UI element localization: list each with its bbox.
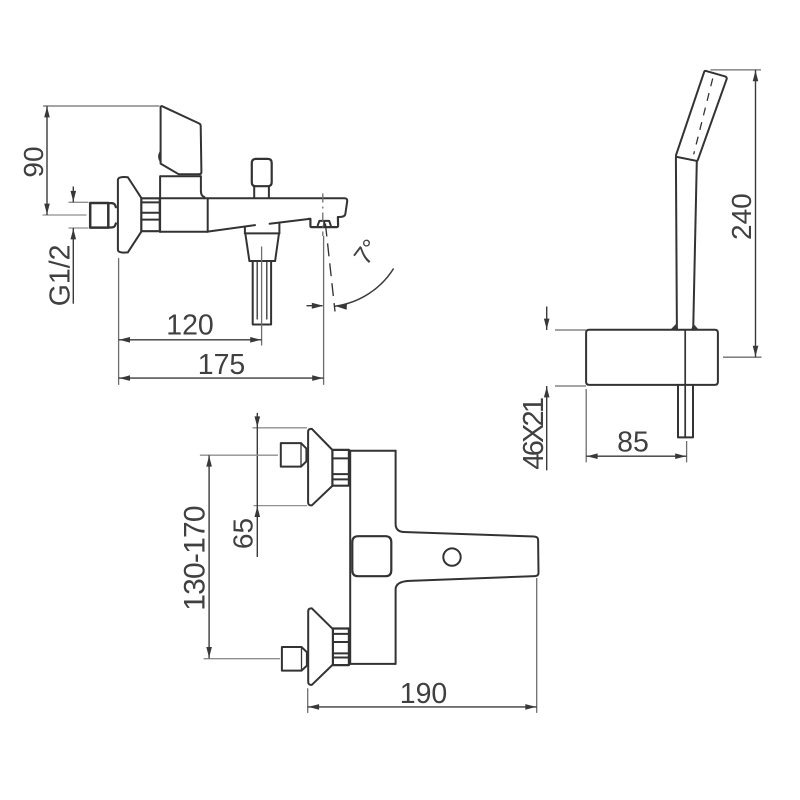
body top and spout right edge [160,198,347,217]
diverter knob stem [254,186,269,198]
dimension line 46X21 upper [544,307,550,331]
extension line holder bottom (46X21) [555,385,586,387]
aerator housing [309,217,339,227]
dimension line G1/2 lower [71,228,77,304]
diverter knob (top view) [443,548,460,565]
wall flange cone (side view) [118,177,141,253]
threaded inlet nipple G1/2 (side view) [90,203,108,228]
shower head (side view) [676,71,727,161]
dimension label 120 [166,309,214,341]
outlet pipe outer walls [253,261,271,325]
lower nut rib 1 [333,633,349,635]
svg-text:85: 85 [617,426,649,458]
dimension label 175 [198,349,246,381]
collar rib line 2 [141,212,160,214]
lower nut rib 4 [333,657,349,659]
dimension label 90 [18,146,49,177]
outlet neck left edge [244,227,246,233]
dimension line 90 [44,106,50,215]
holder clamp left jaw [671,324,678,330]
extension line, inlet axis (dim 90 / fig1) [43,214,87,216]
cartridge neck left edge / collar right edge [159,176,161,232]
svg-text:65: 65 [227,518,258,549]
angle dimension arc [335,269,394,310]
upper nut rib 1 [332,457,349,459]
dimension line G1/2 upper [71,187,77,203]
holder pin [678,385,693,438]
svg-text:130-170: 130-170 [179,506,212,611]
faucet body right side and spout (top view) [396,451,539,664]
upper union nut [332,450,349,486]
dimension line 46X21 lower [544,386,550,470]
lower nut rib 3 [333,652,349,654]
outlet cone shoulder [249,260,275,262]
dimension label 130-170 [179,506,212,611]
shower handle left edge [676,158,677,330]
svg-text:190: 190 [400,678,448,710]
collar rib line 1 [141,201,160,203]
dimension label G1/2 [45,245,77,307]
faucet body bottom edge [350,663,395,665]
dimension line 85 [586,453,686,459]
extension line holder mid (dim 240) [723,356,762,358]
shower handle right edge [693,161,697,329]
lower wall nipple (top view) [282,647,307,671]
lower nut rib 2 [333,641,349,643]
upper nut rib 2 [332,473,349,475]
upper flange cone (top view) [308,429,332,506]
extension line G1/2 bottom [69,227,89,229]
svg-text:G1/2: G1/2 [45,245,77,307]
extension line G1/2 top [69,201,89,203]
dimension label 46X21 [518,398,550,470]
dimension label 240 [726,193,757,240]
nipple-to-flange neck top [108,203,116,207]
wall holder bracket [586,330,718,385]
shower head face edge [694,79,713,155]
spout axis dash-dot line [322,194,324,237]
body underside left segment [208,225,255,232]
dimension line 175 [119,375,324,381]
dimension label 65 [227,518,258,549]
dimension label 85 [617,426,649,458]
nipple-to-flange neck bottom [108,223,116,227]
outlet neck right edge [278,224,280,234]
spout tip extension line (dim 175) [323,236,325,385]
upper nut rib 3 [332,478,349,480]
extension line upper nipple axis (dim 130-170) [200,454,278,456]
extension line holder left (dim 85) [585,389,587,462]
water stream dashed line 7deg [325,224,335,312]
faucet body top edge [350,450,395,452]
lower union nut [333,629,349,666]
dimension line 240 [753,70,759,357]
handle line through holder [684,330,686,438]
aerator insert [318,221,331,226]
cartridge cover square (top view) [352,536,391,576]
outlet cone right side [275,233,279,261]
diverter knob [252,159,272,186]
union nut collar (side view) [141,198,160,231]
neck top edge [160,175,201,177]
svg-text:90: 90 [18,146,49,177]
svg-text:120: 120 [166,309,214,341]
svg-text:175: 175 [198,349,246,381]
svg-text:46X21: 46X21 [518,398,550,470]
extension line cone bottom (dim 65) [254,505,308,507]
angle label 7deg [349,234,386,270]
outlet cone top edge [245,232,280,234]
body section edge [207,198,209,232]
cartridge neck right edge [201,176,204,198]
wall extension line (dims 120/175) [118,258,120,385]
dimension line 120 [119,337,262,343]
extension line wall (dim 190) [307,688,309,713]
dimension line 65 [255,413,261,557]
body underside right segment [270,219,309,224]
lever handle (side view) [161,106,202,174]
dimension label 190 [400,678,448,710]
outlet pipe center line (ext for dim 120) [261,247,263,346]
angle dim arrow at vertical axis [307,303,324,309]
dimension line 130-170 [206,455,212,658]
lower flange cone (top view) [308,608,332,685]
faucet body left edge (top view) [349,451,351,664]
holder clamp right jaw [691,324,698,330]
outlet cone left side [245,233,249,261]
extension line spout tip (dim 190) [536,578,538,713]
extension line pin right (dim 85) [686,441,688,462]
extension line holder top (46X21) [555,329,586,331]
collar rib line 3 [141,219,160,221]
outlet pipe inner walls [257,261,267,319]
dimension line 190 [308,704,537,710]
handle left-edge bump [159,152,160,161]
extension line cone top (dim 65) [253,427,308,429]
upper wall nipple (top view) [281,443,307,467]
body bottom edge under collar [160,231,208,233]
svg-text:240: 240 [726,193,757,240]
extension line lower nipple axis (dim 130-170) [204,658,280,660]
extension line, top of handle (dim 90) [43,105,160,107]
extension line head top (dim 240) [711,69,762,71]
